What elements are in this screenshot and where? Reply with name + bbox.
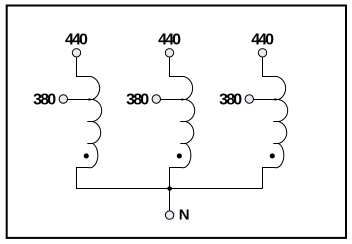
wire neutral bus: [76, 188, 263, 190]
terminal N: [165, 211, 173, 219]
polarity dot T1: [84, 153, 89, 158]
wire 380 tap T3: [254, 99, 279, 101]
wire 380 tap T2: [161, 99, 186, 101]
svg-text:380: 380: [219, 92, 242, 109]
svg-text:440: 440: [158, 32, 181, 49]
wire to N terminal: [169, 189, 171, 211]
wire 380 tap T1: [68, 99, 93, 101]
terminal 380 T1: [59, 95, 67, 103]
polarity dot T3: [270, 153, 275, 158]
terminal 440 T2: [165, 49, 173, 57]
polarity dot T2: [177, 153, 182, 158]
svg-text:380: 380: [126, 92, 149, 109]
junction dot: [167, 186, 172, 191]
terminal 440 T3: [258, 49, 266, 57]
svg-text:440: 440: [65, 32, 88, 49]
terminal 380 T2: [152, 95, 160, 103]
transformer T3 winding: [263, 57, 288, 189]
terminal 380 T3: [245, 95, 253, 103]
svg-text:N: N: [179, 206, 190, 223]
svg-text:440: 440: [251, 32, 274, 49]
transformer T1 winding: [77, 57, 102, 189]
transformer T2 winding: [170, 57, 195, 189]
terminal 440 T1: [72, 49, 80, 57]
svg-text:380: 380: [33, 92, 56, 109]
